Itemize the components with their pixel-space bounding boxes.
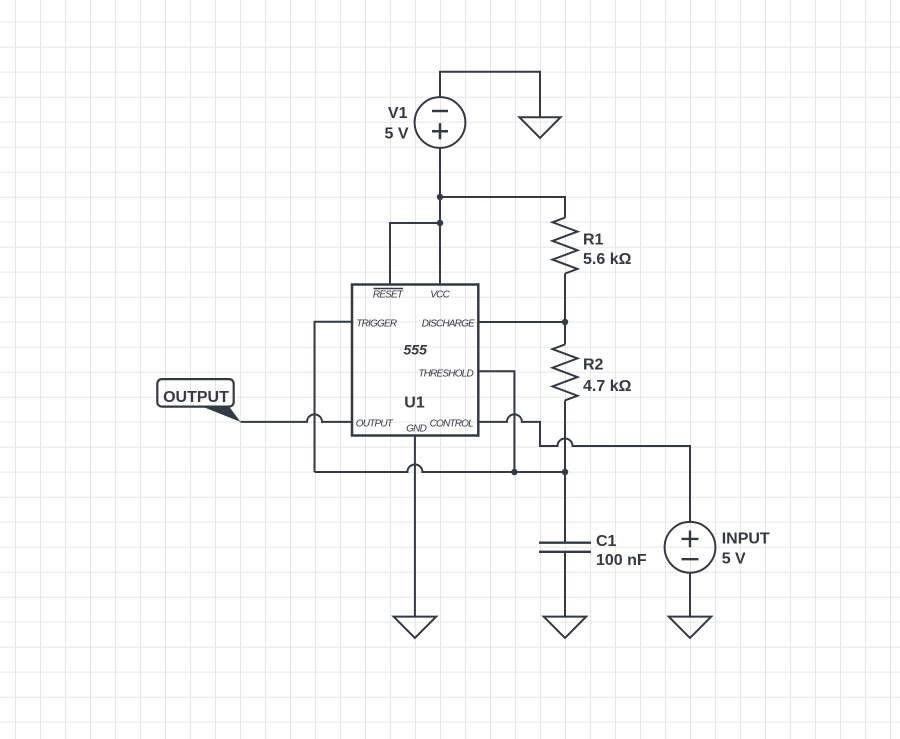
voltage source INPUT	[665, 522, 770, 573]
wire C1 node to capacitor	[564, 472, 566, 542]
ground (below INPUT)	[669, 617, 712, 638]
wire C1 to ground	[564, 553, 566, 617]
svg-text:R1: R1	[583, 232, 604, 249]
wire TRIGGER pin to bottom node	[315, 322, 353, 472]
svg-text:5.6 kΩ: 5.6 kΩ	[583, 251, 632, 268]
svg-text:OUTPUT: OUTPUT	[356, 418, 394, 429]
svg-text:CONTROL: CONTROL	[430, 418, 474, 429]
svg-text:DISCHARGE: DISCHARGE	[422, 318, 475, 329]
svg-text:INPUT: INPUT	[722, 530, 770, 547]
ground (below U1)	[394, 617, 437, 638]
junction dot discharge node	[562, 319, 568, 325]
svg-text:THRESHOLD: THRESHOLD	[418, 369, 473, 380]
wire CONTROL pin to INPUT source (hops threshold and C1 wires)	[478, 414, 690, 522]
flag OUTPUT	[157, 379, 240, 422]
wire V1 bottom to VCC node	[439, 148, 441, 197]
wire GND pin to ground	[414, 436, 416, 617]
svg-text:C1: C1	[596, 533, 617, 550]
svg-text:U1: U1	[404, 395, 425, 412]
wire R1 to discharge node	[564, 274, 566, 322]
svg-text:TRIGGER: TRIGGER	[356, 318, 397, 329]
svg-text:V1: V1	[388, 105, 408, 122]
wire RESET branch	[390, 223, 440, 285]
junction dot threshold node	[511, 469, 517, 475]
wire discharge node to R2	[564, 322, 566, 344]
wire V1 top to ground	[440, 72, 540, 118]
svg-text:R2: R2	[583, 357, 604, 374]
ground (below C1)	[544, 617, 587, 638]
capacitor C1	[539, 533, 647, 569]
svg-text:VCC: VCC	[430, 289, 450, 300]
wire INPUT to ground	[689, 573, 691, 617]
wire R2 to C1 node	[564, 400, 566, 472]
svg-text:RESET: RESET	[373, 289, 404, 300]
svg-text:4.7 kΩ: 4.7 kΩ	[583, 378, 632, 395]
svg-text:555: 555	[404, 342, 428, 358]
resistor R2	[553, 344, 632, 400]
svg-text:5 V: 5 V	[384, 125, 408, 142]
junction dot VCC node	[437, 194, 443, 200]
junction dot RESET branch	[437, 220, 443, 226]
wire THRESHOLD pin down to bottom node	[478, 371, 514, 472]
ground (top right)	[519, 117, 560, 138]
wire DISCHARGE pin to node	[478, 321, 565, 323]
wire VCC node down to VCC pin	[439, 197, 441, 285]
junction dot C1 node	[562, 469, 568, 475]
op-amp U1 555 timer body	[352, 285, 478, 436]
svg-text:100 nF: 100 nF	[596, 552, 647, 569]
svg-text:5 V: 5 V	[722, 550, 746, 567]
svg-text:OUTPUT: OUTPUT	[163, 389, 229, 406]
wire VCC node to R1	[440, 197, 565, 218]
resistor R1	[553, 218, 632, 274]
wire OUTPUT pin to flag (hops trigger wire)	[241, 414, 353, 422]
voltage source V1	[384, 97, 465, 148]
svg-text:GND: GND	[406, 423, 426, 434]
pin label RESET (with overline)	[373, 289, 404, 301]
wire bottom node horizontal (hops GND wire)	[315, 465, 566, 472]
